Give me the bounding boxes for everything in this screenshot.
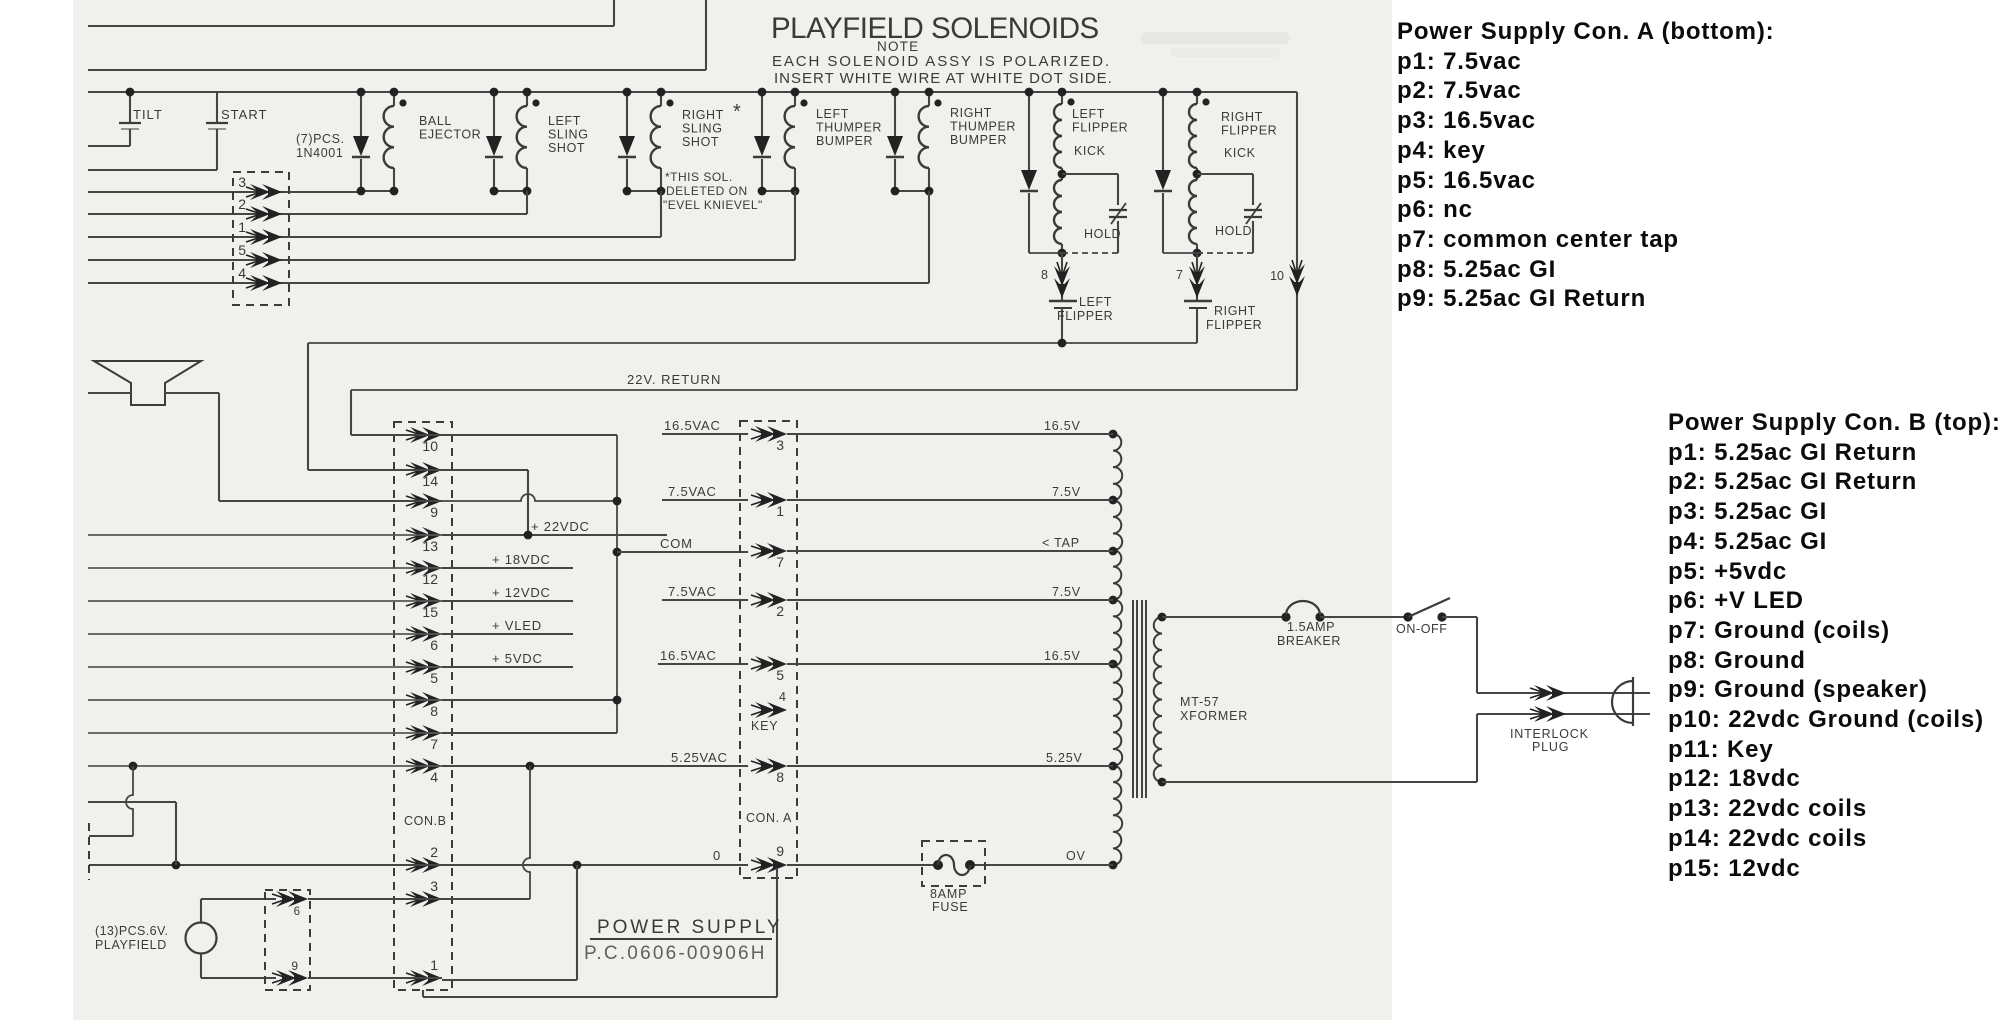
svg-text:SHOT: SHOT <box>682 135 719 149</box>
white-dot marker LEFT FLIPPER <box>1067 98 1074 105</box>
wire 2-pin to CON.B p3 <box>308 898 442 900</box>
lamp (13)PCS 6V playfield <box>186 923 217 954</box>
wire left flipper to EOS <box>1061 253 1063 300</box>
pin 10 CON.B arrow <box>406 427 442 443</box>
pin 6 lamp connector arrow <box>272 891 308 907</box>
svg-text:3: 3 <box>776 437 784 453</box>
svg-text:INSERT WHITE WIRE AT WHITE DOT: INSERT WHITE WIRE AT WHITE DOT SIDE. <box>774 70 1113 87</box>
svg-text:10: 10 <box>422 438 438 454</box>
svg-text:1: 1 <box>238 219 246 235</box>
node EOS junction <box>1058 339 1067 348</box>
wire EOS return to CON.B p14 <box>307 343 309 470</box>
svg-text:7: 7 <box>776 554 784 570</box>
faint scan ghost marks (decorative) <box>1140 32 1290 44</box>
interlock plug shell <box>1612 681 1633 723</box>
node secondary tap 434 <box>1109 430 1118 439</box>
svg-text:PLAYFIELD: PLAYFIELD <box>95 938 167 952</box>
svg-text:+ 18VDC: + 18VDC <box>492 552 551 567</box>
annotation list Power Supply Con. A <box>1397 17 1775 314</box>
svg-text:16.5V: 16.5V <box>1044 649 1081 663</box>
interlock pin arrow upper <box>1530 685 1566 701</box>
wire playfield pin 1 row <box>88 236 661 238</box>
wire p12/+18VDC net stub <box>442 567 573 569</box>
svg-text:(7)PCS.: (7)PCS. <box>296 132 345 146</box>
pin 9 CON.B arrow <box>406 493 442 509</box>
svg-text:KICK: KICK <box>1224 146 1256 160</box>
pin 12 CON.B arrow <box>406 560 442 576</box>
wire 5.25VAC row <box>442 765 748 767</box>
wire right sling to pin1 <box>660 191 662 237</box>
fuse 8AMP (dashed box) <box>922 841 985 886</box>
node secondary tap 865 <box>1109 861 1118 870</box>
capacitor EOS LEFT FLIPPER (in hold box) <box>1109 209 1127 211</box>
svg-text:3: 3 <box>430 878 438 894</box>
svg-text:6: 6 <box>294 906 300 918</box>
pin 7 arrow (down) <box>1189 262 1205 298</box>
svg-text:RIGHT: RIGHT <box>1221 110 1263 124</box>
svg-text:FUSE: FUSE <box>932 900 969 914</box>
wire 7.5VAC stub <box>662 499 748 501</box>
svg-text:16.5V: 16.5V <box>1044 419 1081 433</box>
svg-text:< TAP: < TAP <box>1042 536 1080 550</box>
svg-text:FLIPPER: FLIPPER <box>1072 121 1128 135</box>
wire right thumper to pin4 <box>928 191 930 283</box>
svg-text:+ 22VDC: + 22VDC <box>531 519 590 534</box>
wire ground rail <box>616 435 618 733</box>
svg-text:15: 15 <box>422 604 438 620</box>
svg-text:CON. A: CON. A <box>746 811 792 825</box>
svg-text:8: 8 <box>430 703 438 719</box>
wire playfield pin 2 row <box>88 213 527 215</box>
wire top feed B <box>88 69 706 71</box>
svg-text:13: 13 <box>422 538 438 554</box>
svg-text:PLUG: PLUG <box>1532 740 1569 754</box>
svg-text:5: 5 <box>430 670 438 686</box>
svg-text:BUMPER: BUMPER <box>950 133 1007 147</box>
wire breaker to switch <box>1320 616 1408 618</box>
svg-text:1: 1 <box>776 503 784 519</box>
svg-text:MT-57: MT-57 <box>1180 695 1219 709</box>
svg-text:4: 4 <box>430 769 438 785</box>
svg-text:ON-OFF: ON-OFF <box>1396 622 1448 636</box>
svg-text:HOLD: HOLD <box>1215 224 1252 238</box>
switch START <box>216 92 218 122</box>
wire backbox row y=601 <box>88 600 442 602</box>
wire LEFT FLIPPER hold tap <box>1062 173 1118 175</box>
wire backbox row y=733 <box>88 732 442 734</box>
wire into p14 <box>308 469 442 471</box>
pin 4 playfield connector arrow <box>246 275 282 291</box>
pin 1 playfield connector arrow <box>246 229 282 245</box>
solenoid RIGHT FLIPPER flipper <box>1162 92 1164 170</box>
annotation list Power Supply Con. B <box>1668 408 2001 883</box>
svg-text:BUMPER: BUMPER <box>816 134 873 148</box>
wire 5.25V to tap <box>787 765 1113 767</box>
svg-text:LEFT: LEFT <box>1079 295 1112 309</box>
svg-text:9: 9 <box>430 504 438 520</box>
svg-text:7.5VAC: 7.5VAC <box>668 584 717 599</box>
svg-text:SLING: SLING <box>682 122 723 136</box>
wire solenoid supply bus <box>88 91 1297 93</box>
node secondary tap 600 <box>1109 596 1118 605</box>
wire p6/+VLED net stub <box>442 633 573 635</box>
svg-text:PLAYFIELD SOLENOIDS: PLAYFIELD SOLENOIDS <box>771 12 1099 45</box>
fuse terminal left <box>933 860 943 870</box>
pin 10 arrow (down) <box>1289 260 1305 296</box>
transformer MT-57 secondary winding <box>1113 434 1122 865</box>
svg-text:(13)PCS.6V.: (13)PCS.6V. <box>95 924 168 938</box>
wire lamp top to 2-pin connector <box>201 898 276 900</box>
svg-text:DELETED ON: DELETED ON <box>666 184 748 198</box>
svg-text:5: 5 <box>238 242 246 258</box>
wire flipper EOS return <box>308 342 1197 344</box>
wire 16.5VAC stub b <box>658 663 748 665</box>
wire primary top to breaker <box>1162 616 1286 618</box>
svg-text:FLIPPER: FLIPPER <box>1206 318 1262 332</box>
svg-text:10: 10 <box>1270 269 1284 283</box>
wire 0V row <box>89 864 748 866</box>
connector CON.A (dashed box) <box>740 421 797 878</box>
wire 2-pin to CON.B p1 <box>308 977 442 979</box>
svg-text:SLING: SLING <box>548 128 589 142</box>
wire backbox row y=667 <box>88 666 442 668</box>
wire TAP to tap <box>787 550 1113 552</box>
svg-text:+ 5VDC: + 5VDC <box>492 651 543 666</box>
solenoid LEFT THUMPER BUMPER <box>761 92 763 136</box>
node secondary tap 766 <box>1109 762 1118 771</box>
node secondary tap 664 <box>1109 660 1118 669</box>
wire 16.5V b to tap <box>787 663 1113 665</box>
interlock pin arrow lower <box>1530 706 1566 722</box>
svg-text:*THIS SOL.: *THIS SOL. <box>665 170 733 184</box>
svg-text:NOTE: NOTE <box>877 39 919 54</box>
capacitor right flipper EOS switch <box>1184 300 1212 302</box>
svg-text:5: 5 <box>776 667 784 683</box>
svg-text:P.C.0606-00906H: P.C.0606-00906H <box>584 943 767 964</box>
pin 5 CON.A arrow <box>751 656 787 672</box>
svg-text:EJECTOR: EJECTOR <box>419 128 481 142</box>
fuse terminal right <box>965 860 975 870</box>
wire 22V return drop to p10 <box>350 390 352 435</box>
node +22vdc junction <box>524 531 533 540</box>
fuse element <box>938 855 970 875</box>
wire 7.5VAC stub b <box>662 599 748 601</box>
pin 9 CON.A arrow <box>751 857 787 873</box>
svg-text:1N4001: 1N4001 <box>296 146 343 160</box>
solenoid RIGHT SLING SHOT <box>626 92 628 136</box>
underline POWER SUPPLY <box>590 938 772 940</box>
pin 7 CON.A arrow <box>751 543 787 559</box>
svg-text:1: 1 <box>430 957 438 973</box>
wire 16.5VAC stub <box>662 433 748 435</box>
wire primary bottom <box>1162 781 1477 783</box>
pin 3 playfield connector arrow <box>246 184 282 200</box>
svg-text:4: 4 <box>238 265 246 281</box>
svg-text:7: 7 <box>430 736 438 752</box>
svg-text:SHOT: SHOT <box>548 141 585 155</box>
wire backbox row y=535 <box>88 534 442 536</box>
svg-text:LEFT: LEFT <box>1072 107 1105 121</box>
wire speaker left lead <box>88 392 131 394</box>
wire p13/+22VDC net <box>442 534 667 536</box>
node 5.25vac junction <box>526 762 535 771</box>
transformer core <box>1132 600 1134 798</box>
breaker 1.5 AMP <box>1281 612 1290 621</box>
node secondary tap 551 <box>1109 547 1118 556</box>
svg-text:LEFT: LEFT <box>548 114 581 128</box>
wire interlock upper row <box>1477 692 1650 694</box>
svg-text:EACH SOLENOID ASSY IS POLARIZE: EACH SOLENOID ASSY IS POLARIZED. <box>772 53 1111 70</box>
pin 5 CON.B arrow <box>406 659 442 675</box>
pin 3 CON.A arrow <box>751 426 787 442</box>
wire top feed A <box>88 25 614 27</box>
svg-text:+ 12VDC: + 12VDC <box>492 585 551 600</box>
svg-text:22V. RETURN: 22V. RETURN <box>627 372 721 387</box>
svg-text:TILT: TILT <box>133 107 163 122</box>
white-dot marker BALL EJECTOR <box>399 99 406 106</box>
node 0V-pin1 junction <box>573 861 582 870</box>
pin 4 CON.A key arrow <box>751 702 787 718</box>
wire p7 to rail <box>442 732 617 734</box>
wire playfield pin 4 row <box>88 282 929 284</box>
svg-text:9: 9 <box>776 843 784 859</box>
wire CON.A p9 outer drop <box>776 868 778 997</box>
solenoid LEFT SLING SHOT <box>493 92 495 136</box>
pin 6 CON.B arrow <box>406 626 442 642</box>
svg-text:BREAKER: BREAKER <box>1277 634 1341 648</box>
svg-text:7.5V: 7.5V <box>1052 485 1081 499</box>
connector lamp 2-pin (dashed box) <box>265 890 310 990</box>
wire lamp bottom to 2-pin connector <box>201 977 276 979</box>
wire into p10 <box>351 434 442 436</box>
svg-text:FLIPPER: FLIPPER <box>1057 309 1113 323</box>
node bus-TILT junction <box>126 88 135 97</box>
wire p15/+12VDC net stub <box>442 600 573 602</box>
transformer MT-57 primary winding <box>1154 617 1162 782</box>
svg-text:BALL: BALL <box>419 114 452 128</box>
capacitor left flipper EOS switch <box>1049 300 1077 302</box>
svg-text:KEY: KEY <box>751 719 778 733</box>
pin 4 CON.B arrow <box>406 758 442 774</box>
svg-text:4: 4 <box>779 690 786 704</box>
pin 14 CON.B arrow <box>406 462 442 478</box>
svg-text:+ VLED: + VLED <box>492 618 542 633</box>
svg-text:7.5VAC: 7.5VAC <box>668 484 717 499</box>
wire bus right end down <box>1296 92 1298 390</box>
wire p8 to rail <box>442 699 617 701</box>
wire 0V drop to p1 row <box>576 865 578 980</box>
pin 7 CON.B arrow <box>406 725 442 741</box>
white-dot marker LEFT SLING SHOT <box>532 99 539 106</box>
svg-text:14: 14 <box>422 473 438 489</box>
svg-text:2: 2 <box>238 196 246 212</box>
svg-text:COM: COM <box>660 536 693 551</box>
wire 7.5V to tap <box>787 499 1113 501</box>
solenoid LEFT FLIPPER flipper <box>1028 92 1030 170</box>
svg-text:9: 9 <box>291 959 298 973</box>
capacitor EOS RIGHT FLIPPER (in hold box) <box>1244 209 1262 211</box>
svg-text:INTERLOCK: INTERLOCK <box>1510 727 1589 741</box>
white-dot marker RIGHT SLING SHOT <box>666 99 673 106</box>
pin 8 arrow (down) <box>1054 262 1070 298</box>
scan paper background <box>73 0 1392 1020</box>
wire left sling to pin2 <box>526 191 528 214</box>
svg-text:THUMPER: THUMPER <box>816 121 882 135</box>
node p4-row tap <box>129 762 138 771</box>
wire RIGHT FLIPPER hold tap <box>1197 173 1253 175</box>
wire 22V return <box>351 389 1297 391</box>
pin 8 CON.B arrow <box>406 692 442 708</box>
wire backbox row y=634 <box>88 633 442 635</box>
svg-text:16.5VAC: 16.5VAC <box>660 648 717 663</box>
svg-text:6: 6 <box>430 637 438 653</box>
wire COM to CON.A p7 <box>617 551 748 553</box>
svg-text:3: 3 <box>238 174 246 190</box>
wire backbox row y=568 <box>88 567 442 569</box>
svg-text:*: * <box>733 101 741 123</box>
connector CON.B (dashed box) <box>394 422 452 990</box>
svg-text:2: 2 <box>776 603 784 619</box>
solenoid RIGHT THUMPER BUMPER <box>894 92 896 136</box>
pin 5 playfield connector arrow <box>246 252 282 268</box>
pin 2 playfield connector arrow <box>246 206 282 222</box>
svg-text:8AMP: 8AMP <box>930 887 967 901</box>
svg-text:RIGHT: RIGHT <box>682 108 724 122</box>
wire into p9 <box>219 500 442 502</box>
wire switch to elbow <box>1442 616 1477 618</box>
speaker <box>94 361 201 405</box>
white-dot marker LEFT THUMPER BUMPER <box>800 99 807 106</box>
svg-text:LEFT: LEFT <box>816 107 849 121</box>
solenoid BALL EJECTOR <box>360 92 362 136</box>
svg-text:START: START <box>221 107 267 122</box>
wire backbox row y=700 <box>88 699 442 701</box>
svg-text:1.5AMP: 1.5AMP <box>1287 620 1335 634</box>
wire speaker right lead <box>165 392 219 394</box>
svg-text:7.5V: 7.5V <box>1052 585 1081 599</box>
wire p5/+5VDC net stub <box>442 666 573 668</box>
svg-text:7: 7 <box>1176 268 1183 282</box>
svg-text:0: 0 <box>713 848 721 863</box>
wire p4-row drop (hops elbow) <box>89 835 133 837</box>
wire p3 to drop <box>442 898 530 900</box>
svg-text:5.25VAC: 5.25VAC <box>671 750 728 765</box>
svg-text:OV: OV <box>1066 849 1086 863</box>
pin 3 CON.B arrow <box>406 891 442 907</box>
connector playfield 5-pin (dashed box) <box>233 172 289 305</box>
wire lower elbow a <box>88 801 176 803</box>
svg-text:12: 12 <box>422 571 438 587</box>
pin 2 CON.B arrow <box>406 857 442 873</box>
wire 7.5V b to tap <box>787 599 1113 601</box>
svg-text:8: 8 <box>776 769 784 785</box>
svg-text:"EVEL KNIEVEL": "EVEL KNIEVEL" <box>663 198 763 212</box>
connector left-edge (dashed fragment) <box>88 823 90 880</box>
pin 13 CON.B arrow <box>406 527 442 543</box>
pin 8 CON.A arrow <box>751 758 787 774</box>
wire p10 to ground rail <box>442 434 617 436</box>
wire into p1 <box>442 979 577 981</box>
svg-text:2: 2 <box>430 844 438 860</box>
svg-text:KICK: KICK <box>1074 144 1106 158</box>
wire playfield pin 3 row <box>88 191 361 193</box>
wire right flipper to EOS <box>1196 252 1198 300</box>
wire 16.5V to tap <box>787 433 1113 435</box>
svg-text:HOLD: HOLD <box>1084 227 1121 241</box>
wire playfield pin 5 row <box>88 259 795 261</box>
svg-text:FLIPPER: FLIPPER <box>1221 124 1277 138</box>
white-dot marker RIGHT THUMPER BUMPER <box>934 99 941 106</box>
switch TILT <box>129 92 131 122</box>
svg-text:THUMPER: THUMPER <box>950 120 1016 134</box>
white-dot marker RIGHT FLIPPER <box>1202 98 1209 105</box>
svg-text:XFORMER: XFORMER <box>1180 709 1248 723</box>
pin 1 CON.B arrow <box>406 970 442 986</box>
wire p14 over to +22 drop <box>442 469 528 471</box>
wire backbox row y=766 <box>88 765 442 767</box>
wire interlock lower row <box>1477 713 1650 715</box>
wire 0V row to tap through fuse <box>787 864 938 866</box>
switch ON-OFF <box>1403 612 1412 621</box>
svg-text:8: 8 <box>1041 268 1048 282</box>
svg-text:5.25V: 5.25V <box>1046 751 1083 765</box>
node secondary tap 500 <box>1109 496 1118 505</box>
svg-text:POWER SUPPLY: POWER SUPPLY <box>597 917 782 938</box>
pin 2 CON.A arrow <box>751 592 787 608</box>
pin 15 CON.B arrow <box>406 593 442 609</box>
svg-text:CON.B: CON.B <box>404 814 447 828</box>
pin 1 CON.A arrow <box>751 492 787 508</box>
wire left thumper to pin5 <box>794 191 796 260</box>
svg-text:RIGHT: RIGHT <box>1214 304 1256 318</box>
pin 9 lamp connector arrow <box>272 970 308 986</box>
svg-text:RIGHT: RIGHT <box>950 106 992 120</box>
svg-text:16.5VAC: 16.5VAC <box>664 418 721 433</box>
node 0V-left junction <box>172 861 181 870</box>
